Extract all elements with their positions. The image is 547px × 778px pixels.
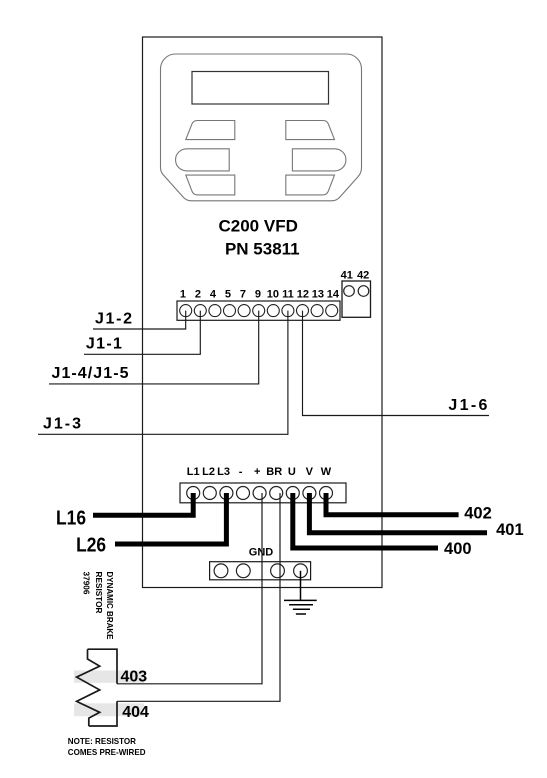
wire J1-1 to terminal 2	[84, 311, 200, 355]
keypad button bottom-right	[286, 175, 335, 195]
svg-text:W: W	[321, 466, 332, 478]
svg-text:DYNAMIC BRAKE: DYNAMIC BRAKE	[105, 572, 115, 640]
svg-text:11: 11	[282, 289, 294, 301]
wire J1-3 to terminal 11	[38, 311, 288, 435]
keypad display U1	[192, 72, 329, 105]
svg-text:404: 404	[122, 704, 149, 721]
svg-text:7: 7	[240, 289, 246, 301]
wire 404 from terminal BR to brake resistor	[117, 493, 280, 701]
svg-text:2: 2	[195, 289, 201, 301]
svg-text:403: 403	[120, 669, 147, 686]
svg-text:14: 14	[327, 289, 340, 301]
svg-text:L1: L1	[187, 466, 200, 478]
svg-text:NOTE: RESISTOR: NOTE: RESISTOR	[68, 736, 136, 746]
svg-text:U: U	[288, 466, 296, 478]
wire J1-4/J1-5 to terminal 9	[49, 311, 259, 384]
terminal circles 1-14	[180, 305, 338, 317]
wire L26 to terminal L3	[115, 493, 226, 544]
svg-text:L16: L16	[56, 507, 86, 529]
svg-text:5: 5	[225, 289, 231, 301]
dynamic brake resistor R1	[77, 649, 117, 726]
keypad button top-left	[186, 121, 235, 140]
keypad button bottom-left	[186, 175, 235, 195]
svg-text:PN 53811: PN 53811	[225, 240, 300, 259]
svg-text:RESISTOR: RESISTOR	[94, 572, 104, 614]
keypad outline	[161, 54, 362, 201]
keypad button mid-right	[292, 149, 346, 171]
svg-text:C200 VFD: C200 VFD	[219, 217, 298, 236]
wire 400 to terminal U	[293, 493, 438, 548]
wire J1-6 to terminal 12	[303, 311, 490, 416]
svg-text:J1-1: J1-1	[86, 336, 122, 353]
wire 401 to terminal V	[309, 493, 487, 533]
VFD enclosure box	[143, 37, 383, 588]
terminal labels L1 L2 L3 - + BR U V W	[187, 466, 332, 478]
control terminal strip J1	[177, 301, 340, 320]
svg-text:41: 41	[341, 270, 353, 282]
svg-text:J1-6: J1-6	[448, 397, 487, 414]
svg-text:10: 10	[267, 289, 279, 301]
svg-text:L3: L3	[217, 466, 230, 478]
svg-text:V: V	[306, 466, 314, 478]
highlight band 403	[74, 671, 144, 683]
ground terminal circles	[214, 564, 307, 578]
svg-text:9: 9	[255, 289, 261, 301]
svg-text:42: 42	[357, 270, 369, 282]
highlight band 404	[74, 703, 144, 716]
svg-text:J1-4/J1-5: J1-4/J1-5	[52, 365, 129, 382]
svg-text:12: 12	[297, 289, 309, 301]
power terminal strip	[180, 483, 346, 503]
svg-text:37906: 37906	[82, 572, 92, 595]
terminal circle 42	[358, 286, 369, 297]
wire L16 to terminal L1	[93, 493, 193, 515]
ground terminal block GND	[210, 562, 311, 580]
terminal pin numbers 1 2 4 5 7 9 10 11 12 13 14	[180, 289, 340, 301]
svg-text:J1-3: J1-3	[43, 416, 81, 433]
power terminal circles	[187, 487, 333, 500]
wire 403 from terminal + to brake resistor	[117, 493, 262, 684]
svg-text:402: 402	[464, 505, 492, 523]
svg-text:L26: L26	[76, 534, 106, 556]
svg-text:+: +	[254, 466, 260, 478]
svg-text:BR: BR	[266, 466, 282, 478]
wire 402 to terminal W	[326, 493, 459, 515]
svg-text:J1-2: J1-2	[95, 311, 132, 328]
keypad button mid-left	[176, 149, 230, 171]
svg-text:400: 400	[444, 540, 472, 558]
terminal circle 41	[344, 286, 355, 297]
svg-text:4: 4	[210, 289, 217, 301]
svg-text:L2: L2	[202, 466, 215, 478]
svg-text:-: -	[239, 466, 243, 478]
svg-text:1: 1	[180, 289, 186, 301]
svg-text:401: 401	[496, 521, 524, 539]
svg-text:13: 13	[312, 289, 324, 301]
svg-text:GND: GND	[249, 547, 274, 559]
keypad button top-right	[286, 121, 335, 140]
earth ground symbol	[284, 571, 317, 614]
wire J1-2 to terminal 1	[93, 311, 186, 329]
svg-text:COMES PRE-WIRED: COMES PRE-WIRED	[68, 747, 146, 757]
relay terminal block 41 42	[342, 281, 371, 317]
